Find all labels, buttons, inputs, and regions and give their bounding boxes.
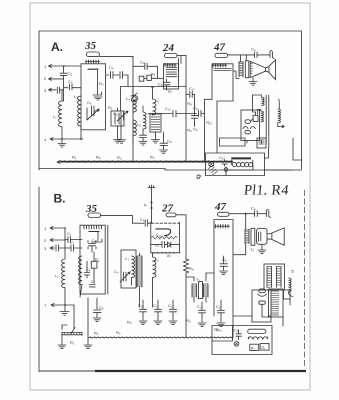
- svg-text:C₁₃: C₁₃: [197, 304, 203, 309]
- capacitor C2B: [65, 245, 82, 251]
- dashed wire to 27 box: [152, 222, 180, 224]
- outer page border: [30, 3, 310, 390]
- tube 47B base hatch: [215, 225, 230, 229]
- ground under L1: [58, 139, 66, 147]
- speaker horn B: [267, 228, 284, 245]
- capacitor C10 on wire: [173, 111, 197, 118]
- ground under C8a: [139, 142, 147, 146]
- wire from T5 bottom to left: [233, 244, 246, 255]
- small hatched box: [257, 138, 266, 148]
- svg-text:C₄: C₄: [109, 65, 114, 70]
- coil L3B: [132, 256, 135, 285]
- PS area outline box B: [212, 326, 272, 355]
- tube 35 envelope pill: [87, 52, 100, 57]
- wire 24 pill to right: [177, 56, 186, 72]
- capacitor C10B column: [140, 300, 147, 320]
- capacitor C17: [222, 160, 228, 167]
- terminal 2 arrow: [49, 77, 64, 80]
- ground C14B: [198, 323, 206, 327]
- plate caps C4 (two in series): [106, 72, 129, 79]
- svg-text:R₈: R₈: [189, 266, 194, 271]
- rectifier winding B: [269, 289, 284, 317]
- svg-text:C₄: C₄: [140, 60, 145, 65]
- IF winding left B: [139, 253, 141, 256]
- svg-text:C₄: C₄: [114, 269, 119, 274]
- svg-text:R₈: R₈: [187, 101, 192, 106]
- box right edge 27 stage: [178, 222, 180, 253]
- capacitor C11 wire: [186, 91, 195, 113]
- coil L5: [133, 120, 136, 162]
- tube 27 envelope pill: [166, 213, 176, 217]
- svg-text:C₆: C₆: [140, 217, 145, 222]
- bottom wire 27 stage: [151, 252, 180, 254]
- ground C10B: [139, 321, 147, 325]
- terminal 1 arrow: [49, 65, 82, 68]
- svg-text:C₆: C₆: [91, 279, 96, 284]
- ground under C8B: [93, 318, 101, 322]
- svg-text:t₆: t₆: [144, 202, 147, 207]
- wire y113.5 long: [148, 113, 172, 115]
- svg-text:L₃: L₃: [125, 256, 129, 261]
- ground C15B: [217, 323, 225, 327]
- svg-text:R₉: R₉: [186, 318, 191, 323]
- capacitor C13: [191, 114, 197, 127]
- terminal 3B arrow + cap: [50, 245, 65, 251]
- T2 core: [245, 61, 249, 78]
- coil L2 on box edge: [78, 96, 81, 139]
- tube 35B plate lead: [94, 232, 103, 242]
- terminal 4B wire: [51, 304, 74, 307]
- grid-cap curl wire to 24: [121, 75, 141, 111]
- capacitor C8a under L7: [140, 131, 147, 141]
- svg-text:C₃: C₃: [68, 79, 73, 84]
- terminal 1B arrow: [50, 227, 65, 230]
- capacitor C12 on wire: [199, 110, 205, 116]
- ground under R1B left: [58, 335, 66, 348]
- pilot lamp B: [234, 342, 239, 347]
- frame box circuit B left edge: [38, 187, 40, 372]
- capacitor Cn: [255, 52, 270, 57]
- svg-text:R₉: R₉: [187, 128, 192, 133]
- svg-text:C₄: C₄: [251, 206, 256, 211]
- wire node x133 to cap Cu: [133, 65, 144, 67]
- T1 wires: [186, 273, 214, 302]
- ground inside 35A box: [94, 94, 102, 100]
- terminal 2B arrow: [50, 239, 65, 242]
- primary winding hooks: [252, 95, 261, 100]
- svg-text:R₁₀: R₁₀: [206, 120, 212, 125]
- capacitor C15B column: [218, 300, 225, 322]
- tube 35B grid bar: [89, 231, 99, 233]
- ground under C5b: [118, 140, 126, 143]
- svg-text:Rₓ: Rₓ: [214, 327, 219, 332]
- svg-text:Pl1. R4: Pl1. R4: [243, 183, 290, 199]
- capacitor Ca inside 47B: [220, 256, 228, 270]
- ballast winding loops: [232, 163, 236, 167]
- right link wires: [265, 138, 302, 170]
- svg-text:C₆: C₆: [193, 127, 198, 132]
- svg-text:C₈: C₈: [99, 305, 104, 310]
- bus left terminal arrow: [57, 161, 66, 164]
- output transformer T2 winding: [239, 62, 243, 76]
- ground under L1B: [60, 297, 69, 315]
- diode detector: [168, 242, 180, 247]
- wire down to T5: [245, 214, 247, 229]
- IF winding left (L7): [143, 106, 146, 131]
- svg-text:R₂: R₂: [94, 331, 99, 336]
- svg-text:R₇: R₇: [168, 89, 173, 94]
- theta lamp small: [224, 168, 228, 172]
- svg-text:C₅: C₅: [113, 111, 118, 116]
- tall box tube 47B: [214, 220, 233, 317]
- capacitor C1B: [65, 228, 82, 248]
- svg-text:R₄: R₄: [116, 330, 121, 335]
- svg-text:C₁₄: C₁₄: [216, 304, 222, 309]
- svg-text:A₇: A₇: [167, 253, 172, 258]
- svg-text:35: 35: [84, 40, 97, 52]
- svg-text:R: R: [290, 270, 295, 273]
- diagonal hatch marks: [208, 165, 218, 175]
- IF transformer 24 box: [164, 64, 179, 89]
- capacitor C8B: [94, 298, 102, 317]
- stage box 35A: [81, 64, 106, 130]
- wire 35B pill right: [101, 216, 133, 224]
- coil L1B: [62, 248, 65, 297]
- bus hatch ticks: [64, 160, 229, 162]
- frame box circuit B right edge dashed: [304, 190, 306, 368]
- second tuned circuit B: [121, 250, 136, 288]
- speaker cone A: [250, 61, 265, 77]
- wire left to box edge: [233, 71, 239, 79]
- ground under speaker A: [249, 78, 257, 86]
- bottom edge box A: [39, 169, 302, 171]
- svg-text:R₄: R₄: [150, 155, 155, 160]
- tube 35 base hatch: [86, 60, 100, 63]
- coil L1: [59, 90, 62, 139]
- tube 47 envelope pill: [215, 53, 228, 57]
- svg-text:B.: B.: [54, 192, 66, 206]
- svg-text:R₅: R₅: [151, 72, 156, 77]
- svg-text:C₁₂: C₁₂: [168, 303, 174, 308]
- power supply box B: [252, 290, 271, 322]
- svg-text:C₅: C₅: [87, 100, 92, 105]
- capacitor C3: [64, 84, 82, 90]
- ground Ca: [220, 271, 228, 275]
- coil L4: [133, 88, 136, 113]
- variable capacitor C5: [87, 106, 99, 120]
- svg-text:R₁: R₁: [70, 340, 75, 345]
- svg-text:L₅: L₅: [137, 122, 141, 127]
- wire in rect box: [228, 165, 253, 170]
- tube 47 base hatch: [213, 64, 227, 68]
- svg-text:L₆: L₆: [155, 257, 159, 262]
- svg-text:C₁: C₁: [67, 231, 72, 236]
- rectifier box A outline: [206, 153, 265, 176]
- wire from 35 pill to node x133: [100, 56, 134, 145]
- svg-text:C₁₁: C₁₁: [189, 86, 195, 91]
- wire down to T2: [241, 55, 247, 62]
- potentiometer R1B: [62, 305, 82, 335]
- small box top right PS: [284, 290, 291, 299]
- svg-text:R₂: R₂: [96, 155, 101, 160]
- tall box tube 47: [205, 64, 234, 153]
- svg-text:C₁₁: C₁₁: [193, 106, 199, 111]
- pilot lamp: [209, 162, 214, 167]
- tube 27 grid hook: [156, 229, 171, 236]
- terminal 4 wire and grounds: [50, 138, 83, 141]
- wire 47 pill to Cn: [228, 54, 255, 56]
- ground C11B: [154, 321, 162, 325]
- svg-text:C₂: C₂: [68, 71, 73, 76]
- vertical R10 line: [204, 99, 206, 161]
- B bus resistive hatched line: [88, 337, 233, 339]
- ballast pill B: [248, 329, 266, 333]
- capacitor C6 under box: [163, 79, 170, 90]
- ground under winding box: [152, 132, 160, 143]
- tube 35B base hatch: [84, 226, 102, 229]
- ground mid under pot: [84, 298, 92, 349]
- resistor zigzag field B: [289, 278, 294, 297]
- left return wire 27: [150, 222, 152, 253]
- tube 35 plate lead: [93, 70, 102, 95]
- svg-text:C₄: C₄: [251, 47, 256, 52]
- upper rect power sub-box: [220, 138, 246, 146]
- vertical link: [247, 141, 269, 149]
- variable cap C4B: [120, 272, 130, 282]
- field transformer below speaker: [264, 264, 285, 290]
- tube 35B envelope pill: [88, 213, 101, 218]
- svg-text:R₂: R₂: [108, 105, 113, 110]
- svg-text:R₃: R₃: [117, 155, 122, 160]
- svg-text:24: 24: [162, 42, 175, 54]
- resistor line R8/R9 vertical: [185, 56, 187, 162]
- resistor R8 zigzag vertical: [184, 259, 189, 338]
- svg-text:L₂: L₂: [74, 94, 78, 99]
- capacitor C14B column: [199, 302, 206, 322]
- capacitor C12B column: [170, 300, 177, 320]
- svg-text:L₄: L₄: [126, 96, 130, 101]
- ground under C8: [160, 150, 168, 154]
- svg-text:R₁: R₁: [72, 155, 77, 160]
- svg-text:R₀: R₀: [99, 81, 104, 86]
- svg-text:C₁₁: C₁₁: [153, 303, 159, 308]
- terminal 3 arrow + series cap: [49, 87, 64, 93]
- wire y316: [233, 316, 271, 338]
- wire right edge links: [283, 299, 290, 326]
- output transformer T5 winding: [245, 230, 249, 243]
- svg-text:T₅: T₅: [250, 247, 254, 252]
- speaker driver B: [257, 228, 268, 244]
- svg-text:L₆: L₆: [155, 98, 159, 103]
- svg-text:C₁₀: C₁₀: [165, 106, 171, 111]
- tube 35 grid bar: [88, 68, 98, 70]
- coil L2B on box edge: [79, 256, 82, 297]
- stage box 35B: [80, 225, 105, 294]
- resistor Ru small box: [147, 75, 151, 80]
- power box A: [241, 110, 260, 141]
- wire 27 pill right then down: [176, 215, 186, 259]
- capacitor Cu (24 grid): [145, 63, 158, 78]
- ground under driver B: [258, 244, 266, 253]
- capacitor C2: [60, 66, 67, 101]
- capacitor C8 left column: [160, 132, 168, 149]
- ground under box2: [114, 140, 122, 144]
- junction dots t6: [151, 202, 153, 204]
- field coil A: [278, 109, 284, 128]
- svg-text:R₃: R₃: [127, 320, 132, 325]
- tuned box 2 (C/R block): [111, 111, 124, 126]
- winding box under L6: [150, 114, 161, 132]
- capacitor C4b on wire y222: [133, 220, 152, 226]
- tube 24 envelope pill: [165, 54, 178, 58]
- ground C12B: [169, 321, 177, 325]
- small box R6: [139, 76, 144, 81]
- T5 core: [251, 228, 255, 245]
- small boxes Rx Rw: [250, 344, 259, 350]
- svg-text:C₂: C₂: [70, 240, 75, 245]
- mains symbol top: [148, 185, 155, 223]
- svg-text:C₈: C₈: [167, 139, 172, 144]
- svg-text:Cₐ: Cₐ: [222, 257, 227, 262]
- svg-text:47: 47: [214, 201, 227, 213]
- ballast bar: [231, 157, 251, 159]
- tube 24 base hatch: [165, 64, 177, 67]
- transformer core bars: [266, 95, 269, 144]
- tube 47B envelope pill: [218, 212, 230, 216]
- wire under stage coils: [140, 280, 153, 307]
- svg-text:C₁₀: C₁₀: [138, 303, 144, 308]
- capacitor CnB: [255, 211, 267, 217]
- jack symbol right of Cn: [270, 50, 274, 58]
- svg-text:47: 47: [213, 42, 226, 54]
- wire grid 24 horiz: [140, 86, 186, 88]
- svg-text:Rk: Rk: [95, 257, 100, 263]
- frame box circuit A: [39, 31, 302, 170]
- squiggle 5): [197, 175, 200, 179]
- jack symbol B: [266, 209, 270, 217]
- bus dark line A: [60, 161, 233, 163]
- frame box circuit B bottom: [39, 370, 95, 372]
- coil L6 (24 plate): [151, 87, 156, 115]
- svg-text:A.: A.: [51, 40, 63, 54]
- svg-text:C₆: C₆: [158, 82, 163, 87]
- variable cap C5b: [117, 111, 128, 139]
- wire 47B pill to Cn: [229, 213, 254, 215]
- coil L6B: [153, 253, 156, 280]
- speaker horn A: [266, 60, 276, 80]
- capacitor C11B column: [155, 300, 162, 320]
